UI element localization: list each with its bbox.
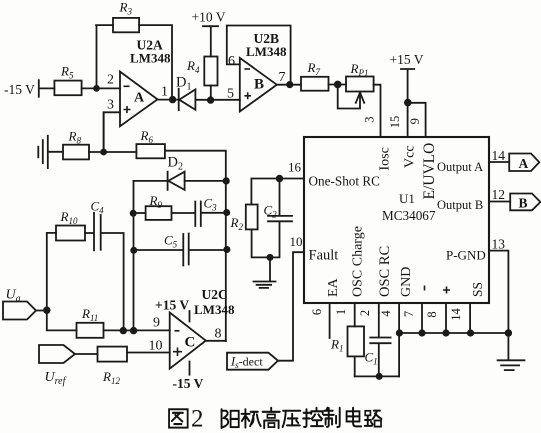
svg-text:9: 9: [408, 118, 422, 124]
svg-text:1: 1: [161, 85, 168, 100]
svg-text:U2C: U2C: [202, 287, 228, 302]
svg-text:RP1: RP1: [350, 61, 369, 78]
svg-text:14: 14: [449, 308, 463, 321]
svg-text:LM348: LM348: [130, 51, 171, 66]
svg-text:One-Shot RC: One-Shot RC: [309, 174, 381, 189]
svg-text:7: 7: [402, 311, 416, 317]
svg-text:9: 9: [153, 316, 160, 331]
svg-text:Output B: Output B: [437, 198, 483, 212]
svg-text:Vcc: Vcc: [403, 145, 418, 168]
svg-text:GND: GND: [399, 267, 414, 297]
svg-text:C3: C3: [204, 196, 218, 213]
svg-text:14: 14: [492, 148, 506, 163]
svg-text:R10: R10: [60, 209, 78, 226]
svg-text:3: 3: [363, 116, 377, 122]
svg-text:8: 8: [425, 311, 439, 317]
svg-text:OSC Charge: OSC Charge: [351, 226, 366, 297]
svg-text:3: 3: [107, 97, 114, 112]
svg-text:R1: R1: [330, 337, 343, 354]
svg-text:Ua: Ua: [6, 288, 21, 305]
svg-text:MC34067: MC34067: [382, 208, 436, 223]
svg-text:P-GND: P-GND: [446, 247, 486, 262]
svg-text:1: 1: [334, 309, 348, 315]
svg-text:6: 6: [310, 309, 324, 315]
svg-text:U1: U1: [399, 191, 415, 206]
svg-text:B: B: [254, 77, 264, 93]
svg-text:10: 10: [149, 339, 163, 354]
svg-text:Iosc: Iosc: [378, 147, 393, 170]
svg-text:8: 8: [215, 327, 222, 342]
svg-text:C1: C1: [365, 350, 378, 367]
svg-text:Fault: Fault: [309, 247, 339, 263]
svg-text:R5: R5: [60, 63, 74, 80]
svg-text:R6: R6: [140, 128, 154, 145]
svg-text:2: 2: [107, 73, 114, 88]
svg-text:5: 5: [227, 87, 234, 102]
svg-text:R11: R11: [81, 306, 98, 323]
svg-text:R2: R2: [230, 215, 244, 232]
svg-text:A: A: [519, 156, 529, 171]
svg-text:-15 V: -15 V: [4, 82, 35, 97]
svg-text:+10 V: +10 V: [192, 10, 226, 25]
svg-text:12: 12: [492, 187, 506, 202]
svg-text:13: 13: [492, 237, 506, 252]
svg-text:R3: R3: [119, 0, 133, 17]
svg-text:10: 10: [290, 234, 303, 249]
svg-text:C4: C4: [91, 199, 105, 216]
svg-text:EA: EA: [326, 277, 341, 297]
svg-text:15: 15: [388, 116, 402, 129]
svg-text:E/UVLO: E/UVLO: [421, 143, 438, 200]
svg-text:R8: R8: [68, 129, 82, 146]
svg-text:7: 7: [279, 70, 286, 85]
svg-text:R4: R4: [186, 58, 200, 75]
svg-text:LM348: LM348: [246, 44, 287, 59]
svg-text:+15 V: +15 V: [155, 298, 189, 313]
svg-text:C2: C2: [264, 203, 278, 220]
svg-text:16: 16: [288, 160, 302, 175]
svg-text:4: 4: [379, 310, 393, 317]
svg-text:R12: R12: [102, 369, 120, 386]
svg-text:A: A: [134, 91, 145, 106]
svg-text:Uref: Uref: [45, 370, 67, 387]
svg-text:LM348: LM348: [194, 302, 235, 317]
svg-text:Output A: Output A: [437, 160, 483, 174]
svg-text:R9: R9: [149, 193, 163, 210]
svg-text:-15 V: -15 V: [173, 376, 204, 391]
svg-text:B: B: [519, 196, 528, 211]
svg-text:2: 2: [358, 310, 372, 316]
svg-text:2: 2: [191, 406, 204, 433]
svg-text:R7: R7: [307, 60, 321, 77]
svg-text:C5: C5: [164, 233, 178, 250]
svg-text:+15 V: +15 V: [390, 52, 424, 67]
svg-text:C: C: [185, 335, 196, 351]
svg-text:D2: D2: [168, 155, 183, 173]
svg-text:D1: D1: [176, 75, 191, 93]
svg-text:SS: SS: [470, 282, 485, 297]
svg-text:6: 6: [228, 54, 235, 69]
svg-text:OSC RC: OSC RC: [377, 246, 393, 297]
svg-text:Is-dect: Is-dect: [230, 355, 263, 371]
